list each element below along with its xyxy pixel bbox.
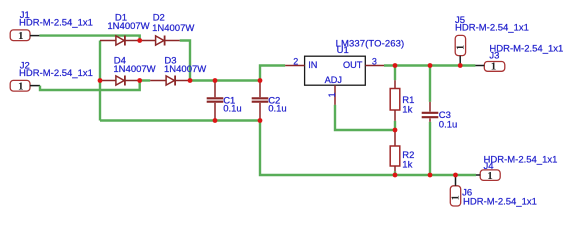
junction node D4-D3: [137, 78, 142, 83]
junction C2 bottom: [258, 118, 263, 123]
pin 1 (ADJ) of U1: [334, 85, 336, 105]
regulator U1 LM337: [305, 56, 366, 85]
junction C1 bottom: [213, 118, 218, 123]
resistor R1: [390, 80, 400, 121]
svg-text:0.1u: 0.1u: [268, 104, 287, 115]
svg-text:0.1u: 0.1u: [439, 119, 458, 130]
svg-text:IN: IN: [308, 60, 317, 70]
pin 3 (OUT) of U1: [365, 65, 384, 67]
wire C3 bottom: [429, 122, 431, 175]
junction C1 top: [213, 78, 218, 83]
wire R2 bottom: [394, 171, 396, 175]
diode D2: [140, 36, 180, 46]
junction node D3 cathode / D2: [188, 78, 193, 83]
wire J1 to node D1-D2: [39, 36, 139, 41]
connector J1: [10, 30, 39, 42]
diode D4: [100, 76, 140, 86]
diode D3: [150, 76, 190, 86]
wire C3 top: [429, 66, 431, 102]
svg-text:HDR-M-2.54_1x1: HDR-M-2.54_1x1: [484, 154, 558, 165]
svg-text:HDR-M-2.54_1x1: HDR-M-2.54_1x1: [19, 17, 93, 28]
svg-text:HDR-M-2.54_1x1: HDR-M-2.54_1x1: [489, 44, 563, 55]
svg-text:0.1u: 0.1u: [223, 104, 242, 115]
pin 2 (IN) of U1: [285, 65, 304, 67]
svg-text:1: 1: [491, 61, 497, 73]
svg-text:HDR-M-2.54_1x1: HDR-M-2.54_1x1: [19, 68, 93, 79]
wire R1 top: [394, 66, 396, 81]
capacitor C2: [252, 81, 269, 121]
capacitor C3: [422, 102, 439, 122]
wire R1 bottom: [394, 121, 396, 130]
svg-text:3: 3: [372, 56, 377, 66]
svg-text:ADJ: ADJ: [325, 75, 342, 85]
wire bottom route C2 to J4: [260, 121, 476, 176]
svg-text:J4: J4: [484, 161, 494, 172]
wire left vertical D1 anode to bottom rail: [99, 41, 101, 121]
junction J5: [458, 63, 463, 68]
svg-text:1k: 1k: [402, 159, 412, 170]
svg-text:OUT: OUT: [343, 60, 363, 70]
svg-text:HDR-M-2.54_1x1: HDR-M-2.54_1x1: [463, 196, 537, 207]
svg-text:1N4007W: 1N4007W: [107, 21, 149, 32]
svg-text:1: 1: [18, 30, 24, 42]
wire C2 node to IN pin: [260, 66, 285, 81]
connector J4: [476, 170, 500, 182]
wire ADJ to R1-R2 node: [335, 105, 395, 130]
wire bottom-left rail: [100, 119, 260, 121]
svg-text:1N4007W: 1N4007W: [113, 64, 155, 75]
connector J2: [10, 80, 40, 92]
junction R1-R2 ADJ node: [393, 128, 398, 133]
junction R1 top: [393, 63, 398, 68]
svg-text:J3: J3: [489, 51, 499, 62]
junction C2 top: [258, 78, 263, 83]
svg-text:HDR-M-2.54_1x1: HDR-M-2.54_1x1: [455, 22, 529, 33]
junction R2 bottom: [393, 173, 398, 178]
resistor R2: [390, 130, 400, 171]
wire J2 to node D4-D3: [40, 81, 140, 91]
capacitor C1: [207, 81, 224, 121]
svg-text:1N4007W: 1N4007W: [164, 64, 206, 75]
junction C3 top: [428, 63, 433, 68]
wire OUT rail: [384, 64, 475, 66]
svg-text:1: 1: [455, 45, 466, 50]
svg-text:1: 1: [18, 81, 24, 93]
svg-text:2: 2: [293, 57, 298, 67]
wire node D4-D3 to D3 anode: [140, 79, 151, 81]
svg-text:1: 1: [451, 195, 462, 200]
connector J6: [450, 175, 461, 206]
svg-text:1: 1: [327, 92, 337, 97]
svg-text:1N4007W: 1N4007W: [152, 23, 194, 34]
svg-text:U1: U1: [337, 45, 349, 56]
junction C3 bottom: [428, 173, 433, 178]
junction node D4 anode / left rail: [98, 78, 103, 83]
svg-text:1k: 1k: [402, 104, 412, 115]
diode D1: [100, 36, 140, 46]
junction J6: [453, 173, 458, 178]
connector J5: [455, 35, 466, 65]
wire bottom row D3 cathode to C2: [190, 79, 260, 81]
wire D2 cathode down to bottom row: [180, 41, 190, 81]
connector J3: [475, 61, 504, 73]
junction node D1-D2: [137, 38, 142, 43]
